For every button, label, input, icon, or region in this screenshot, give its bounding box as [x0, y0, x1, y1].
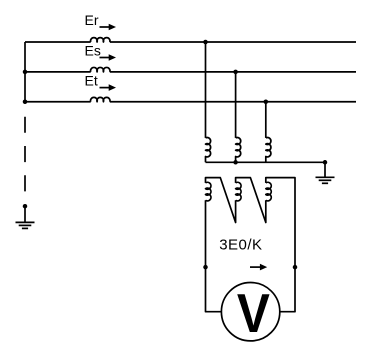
wire phase S horizontal left segment — [25, 71, 91, 73]
wire S3 top to right rail down to voltmeter — [266, 178, 295, 312]
svg-text:3E0/K: 3E0/K — [219, 236, 262, 253]
node junction phase T / PT primary P3 — [264, 100, 269, 105]
secondary winding S3 — [266, 182, 271, 201]
arrow Es direction — [100, 54, 117, 61]
svg-text:Et: Et — [85, 73, 98, 89]
inductor line reactor Lt — [91, 97, 110, 101]
svg-text:Er: Er — [85, 12, 99, 28]
wire left ground stem — [24, 206, 26, 222]
node junction neutral bus / P2 — [233, 160, 238, 165]
arrow Er direction — [100, 24, 117, 31]
inductor line reactor Ls — [91, 67, 110, 71]
wire phase T horizontal left segment — [25, 101, 91, 103]
wire S2 top / diagonal to S3 bottom — [236, 178, 266, 223]
wire phase R horizontal left segment — [25, 41, 91, 43]
secondary winding S1 — [206, 182, 211, 201]
wire left bus vertical — [24, 42, 26, 102]
wire S1 bottom left rail down to voltmeter — [206, 200, 222, 311]
svg-text:Es: Es — [85, 42, 101, 58]
wire primary neutral bus — [206, 161, 326, 163]
wire phase T horizontal right segment — [110, 101, 356, 103]
arrow 3E0 voltage direction — [250, 264, 267, 271]
wire phase R horizontal right segment — [110, 41, 356, 43]
node junction phase S / PT primary P2 — [233, 70, 238, 75]
wire dashed neutral run to earth — [24, 117, 26, 207]
svg-text:V: V — [237, 283, 270, 344]
wire drop phase T to PT primary P3 — [265, 102, 267, 138]
node junction neutral bus / right ground — [323, 160, 328, 165]
wire drop phase S to PT primary P2 — [235, 72, 237, 138]
node open delta right terminal — [293, 265, 298, 270]
secondary winding S2 — [236, 182, 241, 201]
wire S1 top / diagonal to S2 bottom — [206, 178, 236, 223]
wire drop phase R to PT primary P1 — [205, 42, 207, 138]
node junction left bus / phase S — [23, 70, 28, 75]
node junction left bus / phase T — [23, 100, 28, 105]
ground right earth symbol — [316, 177, 335, 183]
PT primary winding P2 — [236, 137, 241, 162]
PT primary winding P3 — [266, 137, 271, 162]
ground left earth symbol — [16, 222, 35, 228]
node open delta left terminal — [203, 265, 208, 270]
node neutral earth junction — [23, 204, 28, 209]
node junction phase R / PT primary P1 — [203, 40, 208, 45]
wire right ground stem — [324, 162, 326, 177]
PT primary winding P1 — [206, 137, 211, 162]
voltmeter V meter circle — [221, 283, 279, 341]
arrow Et direction — [100, 84, 117, 91]
inductor line reactor Lr — [91, 38, 110, 42]
wire phase S horizontal right segment — [110, 71, 356, 73]
